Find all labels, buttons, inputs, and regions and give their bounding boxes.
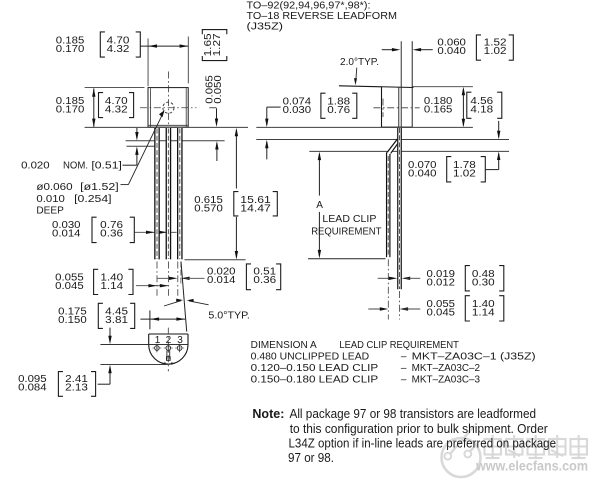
- svg-text:2: 2: [166, 335, 172, 346]
- 0.065/0.050 arrows (body to shoulder): [216, 108, 218, 123]
- 0.615/0.570 overall length dimension line: [235, 130, 237, 189]
- svg-text:0.150–0.180 LEAD CLIP: 0.150–0.180 LEAD CLIP: [251, 374, 379, 385]
- lead line inside body: [398, 87, 400, 137]
- bracket [4.70/4.32] left: [99, 93, 104, 118]
- svg-text:0.084: 0.084: [18, 383, 47, 394]
- svg-text:[0.254]: [0.254]: [74, 194, 112, 205]
- bracket [0.76/0.36]: [92, 217, 97, 242]
- 5.0 deg TYP angle leaders: [164, 301, 181, 306]
- svg-text:MKT–ZA03C–2: MKT–ZA03C–2: [412, 363, 481, 374]
- svg-text:3.81: 3.81: [105, 315, 128, 326]
- right view reference line R3: [309, 150, 509, 152]
- svg-text:0.040: 0.040: [408, 169, 437, 180]
- bracket [4.70/4.32] top: [100, 32, 105, 57]
- hook from rotated 0.065 text to arrow: [209, 107, 216, 109]
- right view reference line R1: [256, 126, 473, 128]
- bottom view pin 1: [155, 346, 160, 351]
- svg-text:MKT–ZA03C–1 (J35Z): MKT–ZA03C–1 (J35Z): [412, 352, 536, 363]
- svg-text:4.32: 4.32: [107, 44, 130, 55]
- 0.175/0.150 dim row: [149, 310, 151, 329]
- svg-text:0.76: 0.76: [327, 105, 350, 116]
- front view lead 3: [177, 128, 182, 260]
- svg-text:0.480 UNCLIPPED LEAD: 0.480 UNCLIPPED LEAD: [251, 352, 370, 363]
- left height dimension line w/ arrows: [93, 88, 95, 127]
- lead tip reference line: [185, 259, 246, 261]
- bracket [1.40/1.14] left: [94, 269, 99, 294]
- svg-text:0.010: 0.010: [36, 194, 65, 205]
- svg-text:DEEP: DEEP: [36, 205, 64, 216]
- svg-text:TO–18 REVERSE LEADFORM: TO–18 REVERSE LEADFORM: [247, 11, 398, 22]
- svg-text:0.165: 0.165: [424, 105, 453, 116]
- top width dimension line w/ arrows: [140, 45, 188, 47]
- bottom tangent reference line: [100, 364, 168, 366]
- dimension A vertical line: [318, 154, 320, 196]
- svg-text:to this configuration prior to: to this configuration prior to bulk ship…: [290, 421, 549, 436]
- pin 2 index tab: [166, 350, 168, 359]
- svg-text:ø0.060: ø0.060: [36, 182, 73, 193]
- svg-text:Note:: Note:: [252, 406, 284, 421]
- lead extension centerlines: [387, 259, 389, 319]
- 0.180/0.165 dim: [412, 86, 473, 88]
- svg-text:A: A: [316, 200, 323, 211]
- front view lead 1: [154, 128, 159, 260]
- svg-text:–: –: [401, 363, 407, 374]
- svg-text:0.150: 0.150: [58, 315, 87, 326]
- bracket [15.61/14.47]: [234, 192, 239, 216]
- bottom view flat face: [149, 333, 188, 335]
- right view bent lead (pins 1,3): [387, 137, 402, 154]
- bottom view pin 3: [177, 346, 182, 351]
- svg-text:0.36: 0.36: [253, 275, 276, 286]
- svg-text:[0.51]: [0.51]: [91, 161, 122, 172]
- bracket [4.56/4.18]: [467, 92, 472, 118]
- bottom view chord line (extended): [100, 344, 188, 346]
- lead clip reference line: [308, 258, 385, 260]
- svg-text:1.02: 1.02: [453, 169, 476, 180]
- 2.0 deg leader arrow: [356, 68, 357, 81]
- front view horizontal centerline: [140, 107, 197, 109]
- svg-text:0.120–0.150 LEAD CLIP: 0.120–0.150 LEAD CLIP: [251, 363, 379, 374]
- bottom view pin 2: [166, 346, 171, 351]
- svg-text:0.170: 0.170: [56, 105, 85, 116]
- svg-text:L34Z option if in-line leads: L34Z option if in-line leads are preferr…: [289, 436, 557, 451]
- svg-text:0.045: 0.045: [55, 281, 84, 292]
- svg-text:All package 97 or 98 transisto: All package 97 or 98 transistors are lea…: [290, 406, 537, 421]
- bracket [0.48/0.30]: [465, 266, 470, 291]
- svg-text:0.045: 0.045: [427, 308, 456, 319]
- right view reference line R2: [256, 139, 509, 141]
- lead tip extension centerlines: [156, 262, 158, 296]
- 0.055/0.045 right spacing dim: [368, 308, 384, 310]
- right view straight lead (pin 2): [397, 128, 401, 289]
- svg-text:0.30: 0.30: [472, 278, 495, 289]
- svg-text:NOM.: NOM.: [63, 161, 88, 172]
- 5 deg splayed lead line: [181, 262, 187, 332]
- svg-text:1.14: 1.14: [100, 281, 123, 292]
- svg-text:14.47: 14.47: [240, 203, 271, 214]
- leader line for punch mark dia: [121, 184, 129, 186]
- svg-text:4.18: 4.18: [470, 105, 493, 116]
- svg-text:0.36: 0.36: [100, 229, 123, 240]
- svg-text:97 or 98.: 97 or 98.: [288, 450, 334, 465]
- svg-text:MKT–ZA03C–3: MKT–ZA03C–3: [412, 374, 481, 385]
- arc bottom tangency marks: [161, 362, 166, 364]
- svg-text:–: –: [401, 352, 407, 363]
- svg-text:0.570: 0.570: [194, 203, 223, 214]
- svg-text:LEAD CLIP REQUIREMENT: LEAD CLIP REQUIREMENT: [339, 340, 459, 351]
- right view horizontal centerline: [373, 107, 419, 109]
- svg-text:DIMENSION A: DIMENSION A: [251, 340, 317, 351]
- svg-text:0.014: 0.014: [52, 229, 81, 240]
- 0.095/0.084 arrows: [109, 328, 111, 343]
- svg-text:1.14: 1.14: [472, 308, 495, 319]
- bracket [1.78/1.02]: [447, 157, 452, 182]
- rotated bracket [1.65/1.27]: [202, 30, 227, 35]
- 0.030/0.014 lead width dim shaft: [135, 231, 177, 233]
- bracket [1.88/0.76]: [321, 93, 326, 118]
- 0.019/0.012 lead thickness dim: [378, 277, 394, 279]
- bracket [0.51/0.36]: [246, 264, 251, 290]
- 0.020 NOM arrows: [136, 128, 138, 138]
- 0.055/0.045 tip spacing dim: [136, 285, 168, 287]
- svg-text:2.13: 2.13: [65, 383, 88, 394]
- bottom view circular arc: [149, 345, 188, 365]
- svg-text:0.170: 0.170: [56, 44, 85, 55]
- bracket [2.41/2.13]: [58, 372, 63, 397]
- svg-text:0.012: 0.012: [427, 278, 456, 289]
- watermark chinese glyph blocks: [484, 435, 589, 458]
- front view: TO-92 body outline: [148, 88, 188, 128]
- front view lead 2: [166, 128, 171, 260]
- svg-text:www.elecfans.com: www.elecfans.com: [475, 459, 588, 474]
- 0.070/0.040 arrows: [498, 121, 500, 137]
- 0.020/0.014 tip width dim: [157, 277, 173, 279]
- punch mark dashed circle: [163, 102, 174, 113]
- 0.060/0.040 arrows: [382, 49, 392, 51]
- dimple section mark: [382, 99, 384, 118]
- bottom view centerline: [167, 328, 169, 372]
- svg-text:2.0°TYP.: 2.0°TYP.: [340, 57, 379, 68]
- bracket [1.40/1.14] right: [465, 296, 470, 321]
- left height dim 0.185/0.170 extension line: [85, 87, 145, 89]
- svg-text:5.0°TYP.: 5.0°TYP.: [208, 311, 250, 322]
- svg-text:4.32: 4.32: [105, 105, 128, 116]
- svg-text:0.030: 0.030: [283, 105, 312, 116]
- front view vertical centerline: [167, 72, 169, 127]
- svg-text:1: 1: [155, 335, 161, 346]
- svg-text:3: 3: [177, 335, 183, 346]
- bracket [1.52/1.02]: [476, 35, 481, 60]
- svg-text:1.27: 1.27: [212, 33, 223, 57]
- 0.074/0.030 arrows: [266, 107, 268, 125]
- svg-text:LEAD CLIP: LEAD CLIP: [322, 214, 376, 225]
- right view body outline: [339, 86, 413, 88]
- svg-text:REQUIREMENT: REQUIREMENT: [311, 226, 381, 237]
- svg-text:–: –: [401, 374, 407, 385]
- svg-text:(J35Z): (J35Z): [247, 22, 284, 33]
- top width dim 0.185/0.170 extension lines: [147, 39, 149, 87]
- reference line L3 (standoff): [127, 145, 157, 147]
- lead edge extension up: [400, 41, 402, 139]
- svg-text:0.020: 0.020: [21, 161, 50, 172]
- reference line L1 (body bottom extended): [85, 126, 248, 128]
- svg-text:1.02: 1.02: [484, 46, 507, 57]
- svg-text:0.050: 0.050: [213, 75, 224, 104]
- svg-text:0.014: 0.014: [207, 275, 236, 286]
- bracket [4.45/3.81]: [98, 303, 103, 328]
- watermark logo circle: [442, 426, 481, 477]
- svg-text:[ø1.52]: [ø1.52]: [80, 182, 119, 193]
- svg-text:TO–92(92,94,96,97*,98*):: TO–92(92,94,96,97*,98*):: [247, 1, 371, 12]
- 0.030/0.014 arrowheads: [146, 231, 155, 234]
- reference line L2 (lead shoulder): [126, 140, 225, 142]
- svg-text:0.040: 0.040: [437, 46, 466, 57]
